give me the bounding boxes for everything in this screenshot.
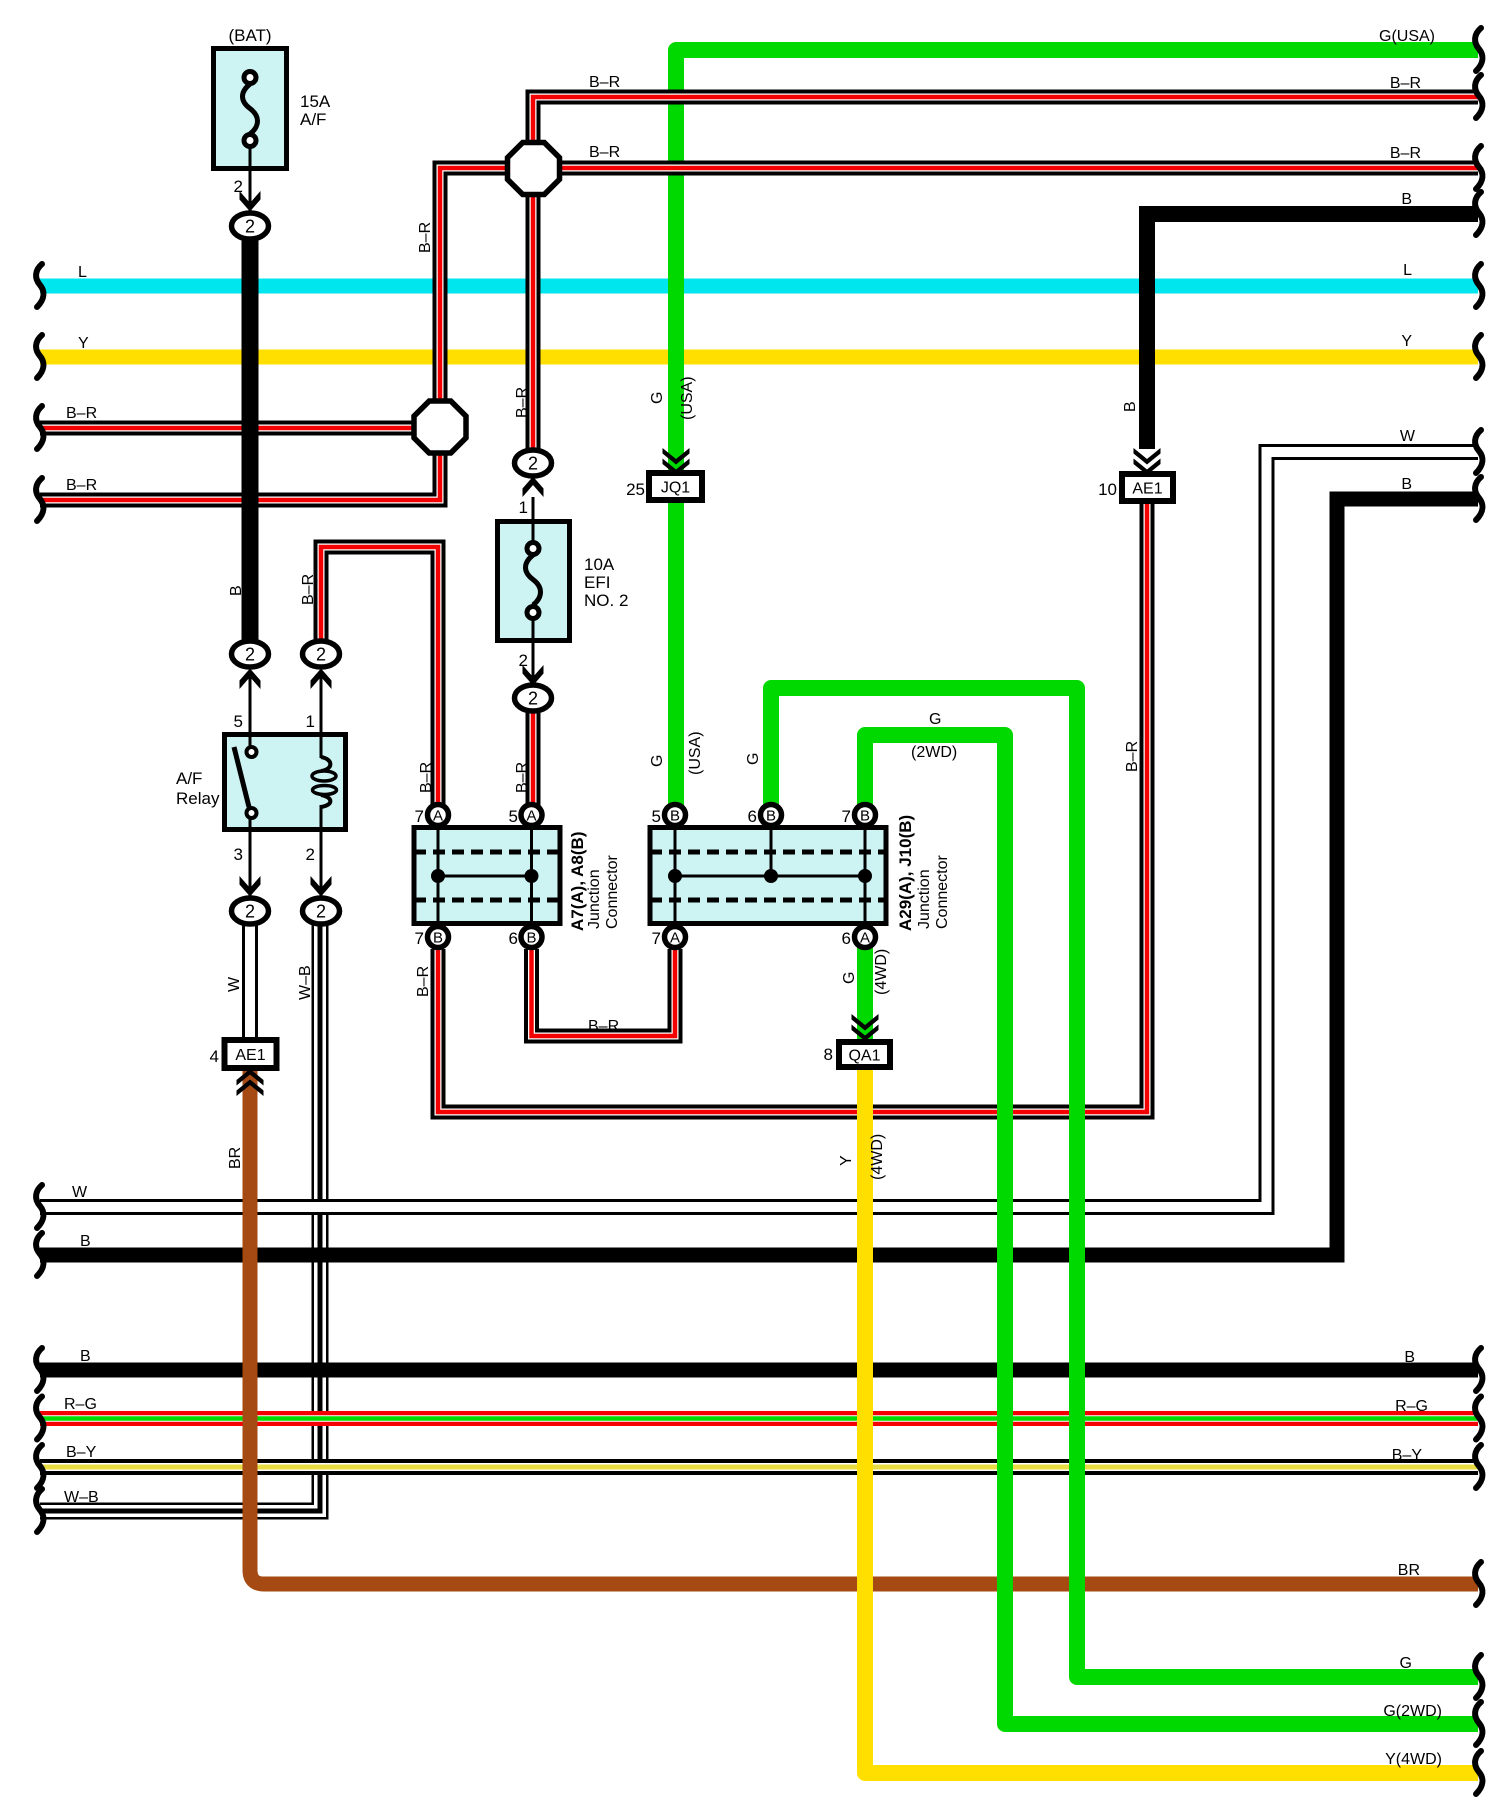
pin 5 A (A7 top right) xyxy=(509,805,542,827)
svg-text:25: 25 xyxy=(626,480,645,499)
svg-text:R–G: R–G xyxy=(1395,1398,1428,1415)
pin 7 A (A7 top left) xyxy=(415,805,449,827)
pin 7 B (A7 bottom left) xyxy=(415,927,449,949)
label B-R below AE1 10 xyxy=(1124,741,1141,772)
svg-text:AE1: AE1 xyxy=(235,1047,265,1064)
svg-text:A/F: A/F xyxy=(176,769,202,788)
wire B-R top first xyxy=(533,97,1478,145)
label R-G right xyxy=(1395,1398,1428,1415)
svg-text:B–R: B–R xyxy=(300,574,317,605)
wire B-R A7 pin 6B to A29 pin 7A xyxy=(532,949,676,1036)
connector ellipse 2 above relay pin 5 xyxy=(232,641,269,667)
connector ellipse 2 below relay pin 2 xyxy=(303,898,340,924)
svg-text:G: G xyxy=(929,711,941,728)
svg-text:Y(4WD): Y(4WD) xyxy=(1385,1751,1442,1768)
svg-text:W: W xyxy=(1400,428,1416,445)
label W-B relay pin 2 wire xyxy=(297,965,314,1000)
svg-text:B–R: B–R xyxy=(66,477,97,494)
label relay pin 3 xyxy=(234,845,243,864)
label L right xyxy=(1403,262,1412,279)
left edge wire-break marks xyxy=(36,264,43,1532)
label G below JQ1 xyxy=(649,755,666,767)
label BR brown wire xyxy=(227,1147,244,1169)
wire Y (left-right bus) xyxy=(40,350,1478,365)
label (USA) below JQ1 xyxy=(687,731,704,775)
svg-text:AE1: AE1 xyxy=(1132,481,1162,498)
label B right top xyxy=(1401,191,1412,208)
svg-text:G: G xyxy=(1400,1655,1412,1672)
label B-R vertical octagon link xyxy=(417,222,434,253)
wire link fuse EFI pin 1 xyxy=(532,497,535,523)
label A/F Relay xyxy=(176,769,220,808)
svg-text:B: B xyxy=(1404,1349,1415,1366)
svg-text:(USA): (USA) xyxy=(687,731,704,775)
svg-text:W: W xyxy=(226,976,243,992)
wire W right loop xyxy=(40,452,1478,1207)
arrow up to ellipse above fuse EFI xyxy=(523,477,544,498)
wire B-R left upper xyxy=(40,421,414,436)
label pin 1 fuse EFI xyxy=(519,498,528,517)
svg-text:8: 8 xyxy=(824,1045,833,1064)
svg-text:A7(A), A8(B): A7(A), A8(B) xyxy=(568,832,587,931)
connector AE1 pin 10 xyxy=(1098,474,1173,501)
svg-text:(4WD): (4WD) xyxy=(869,1134,886,1180)
label pin 2 fuse EFI xyxy=(519,651,528,670)
svg-text:A: A xyxy=(433,808,443,825)
svg-text:G: G xyxy=(649,392,666,404)
svg-text:15A: 15A xyxy=(300,92,331,111)
svg-text:2: 2 xyxy=(245,217,255,237)
label G loop 2WD xyxy=(929,711,941,728)
label B-R relay coil riser xyxy=(300,574,317,605)
svg-text:2: 2 xyxy=(234,177,243,196)
arrow double chevron into AE1 pin 4 xyxy=(237,1069,264,1096)
svg-text:(2WD): (2WD) xyxy=(911,744,957,761)
pin 6 A (A29 bottom right) xyxy=(842,927,876,949)
svg-text:Relay: Relay xyxy=(176,789,220,808)
relay A/F Relay box xyxy=(225,734,346,831)
label (4WD) below QA1 xyxy=(869,1134,886,1180)
svg-text:B: B xyxy=(1401,191,1412,208)
label B left mid xyxy=(80,1233,91,1250)
svg-text:Connector: Connector xyxy=(604,855,621,929)
svg-text:A: A xyxy=(526,808,536,825)
svg-text:7: 7 xyxy=(652,929,661,948)
fuse 10A EFI NO. 2 xyxy=(498,521,570,642)
wire link fuse EFI pin 2 xyxy=(532,640,535,684)
label B right second xyxy=(1401,476,1412,493)
svg-text:7: 7 xyxy=(842,807,851,826)
svg-text:4: 4 xyxy=(210,1047,219,1066)
wire Y(4WD) from QA1 to right edge xyxy=(865,1066,1478,1773)
svg-text:B: B xyxy=(526,930,536,947)
svg-text:(4WD): (4WD) xyxy=(873,949,890,995)
wire link relay pin 1 xyxy=(320,670,323,736)
svg-text:A29(A), J10(B): A29(A), J10(B) xyxy=(896,815,915,931)
svg-text:B–R: B–R xyxy=(66,405,97,422)
svg-text:2: 2 xyxy=(245,645,255,665)
wire G(USA) top xyxy=(676,50,1478,806)
connector QA1 xyxy=(824,1042,890,1067)
wire link fuse 15A to ellipse xyxy=(249,168,252,212)
svg-text:B: B xyxy=(766,808,776,825)
wire B top right xyxy=(1147,214,1478,449)
svg-text:5: 5 xyxy=(234,712,243,731)
svg-text:Y: Y xyxy=(838,1155,855,1166)
svg-text:Junction: Junction xyxy=(586,869,603,929)
connector AE1 pin 4 xyxy=(210,1040,277,1068)
connector ellipse 2 below fuse 15A xyxy=(232,213,269,239)
arrow into ellipse below fuse EFI xyxy=(523,665,544,686)
label 15A A/F xyxy=(300,92,331,129)
svg-text:B: B xyxy=(1401,476,1412,493)
wire link relay pin 5 xyxy=(249,670,252,736)
wire W from relay pin 3 to connector AE1 pin 4 xyxy=(242,920,258,1042)
arrow into ellipse relay pin 2 xyxy=(311,876,332,897)
label B-R below A7 pin 7B xyxy=(415,966,432,997)
wire B-R fuse EFI to A7 pin 5A xyxy=(526,711,541,806)
label B-R left upper xyxy=(66,405,97,422)
svg-text:G(2WD): G(2WD) xyxy=(1383,1703,1442,1720)
label B-Y left xyxy=(66,1444,97,1461)
wire G from A29 pin 6B to right edge xyxy=(771,688,1478,1677)
svg-text:BR: BR xyxy=(1398,1562,1420,1579)
wire B-Y bus xyxy=(40,1459,1478,1475)
label G above QA1 xyxy=(841,972,858,984)
label Y left xyxy=(78,335,89,352)
label (USA) above JQ1 xyxy=(679,376,696,420)
label BR right xyxy=(1398,1562,1420,1579)
arrow into ellipse below fuse 15A xyxy=(240,191,261,212)
svg-text:B: B xyxy=(670,808,680,825)
connector JQ1 xyxy=(626,473,702,500)
svg-text:G(USA): G(USA) xyxy=(1379,28,1435,45)
label B-Y right xyxy=(1392,1447,1423,1464)
svg-text:B–R: B–R xyxy=(1124,741,1141,772)
wire B from fuse 15A to relay pin 5 xyxy=(242,239,259,642)
label B-R vertical octagon1 down xyxy=(514,387,531,418)
svg-text:A/F: A/F xyxy=(300,110,326,129)
label B-R top segment 1 xyxy=(589,74,620,91)
svg-text:Y: Y xyxy=(78,335,89,352)
svg-text:A: A xyxy=(860,930,870,947)
arrow double chevron into JQ1 xyxy=(663,448,690,475)
svg-text:10: 10 xyxy=(1098,480,1117,499)
svg-text:A: A xyxy=(670,930,680,947)
arrow up to ellipse relay pin 5 xyxy=(240,669,261,690)
label (2WD) loop xyxy=(911,744,957,761)
label A29(A), J10(B) Junction Connector xyxy=(896,815,951,931)
svg-text:B–R: B–R xyxy=(1390,145,1421,162)
svg-text:B: B xyxy=(860,808,870,825)
label relay pin 2 xyxy=(306,845,315,864)
label Y below QA1 xyxy=(838,1155,855,1166)
svg-text:5: 5 xyxy=(509,807,518,826)
wire B-R from AE1 pin 10 to A7 pin 7B xyxy=(438,502,1147,1112)
wire link relay pin 2 xyxy=(320,829,323,897)
svg-text:7: 7 xyxy=(415,807,424,826)
label W right xyxy=(1400,428,1416,445)
svg-text:1: 1 xyxy=(306,712,315,731)
label R-G left xyxy=(64,1396,97,1413)
svg-text:3: 3 xyxy=(234,845,243,864)
svg-text:B: B xyxy=(80,1348,91,1365)
label W left xyxy=(72,1184,88,1201)
svg-text:W–B: W–B xyxy=(297,965,314,1000)
junction connector A7(A) A8(B) box xyxy=(414,828,560,924)
connector ellipse 2 below fuse EFI xyxy=(515,685,552,711)
svg-text:(USA): (USA) xyxy=(679,376,696,420)
label B fuse column xyxy=(228,585,245,596)
svg-text:B–R: B–R xyxy=(1390,75,1421,92)
svg-text:B–R: B–R xyxy=(415,966,432,997)
svg-text:2: 2 xyxy=(528,689,538,709)
label (BAT) xyxy=(228,26,271,45)
label W relay pin 3 wire xyxy=(226,976,243,992)
label B-R top segment 2 xyxy=(589,144,620,161)
wire B-R octagon1 down to fuse EFI xyxy=(526,192,541,451)
svg-text:G: G xyxy=(649,755,666,767)
svg-text:2: 2 xyxy=(245,902,255,922)
wire G(4WD) from A29 pin 6A to QA1 xyxy=(857,947,873,1042)
right edge wire-break marks xyxy=(1475,28,1482,1794)
label relay pin 1 xyxy=(306,712,315,731)
label Y(4WD) right xyxy=(1385,1751,1442,1768)
pin 7 B (A29 top right) xyxy=(842,805,876,827)
wire G(2WD) from A29 pin 7B to right edge xyxy=(865,735,1478,1724)
svg-text:B–R: B–R xyxy=(589,74,620,91)
svg-text:Y: Y xyxy=(1401,333,1412,350)
svg-text:Connector: Connector xyxy=(934,855,951,929)
svg-text:1: 1 xyxy=(519,498,528,517)
pin 7 A (A29 bottom left) xyxy=(652,927,686,949)
svg-text:6: 6 xyxy=(509,929,518,948)
label A7(A), A8(B) Junction Connector xyxy=(568,832,621,931)
label B right lower xyxy=(1404,1349,1415,1366)
node octagon junction upper xyxy=(508,143,560,195)
svg-text:(BAT): (BAT) xyxy=(228,26,271,45)
junction connector A29(A) J10(B) box xyxy=(650,828,886,924)
svg-text:B–R: B–R xyxy=(588,1018,619,1035)
svg-text:6: 6 xyxy=(748,807,757,826)
svg-text:B–R: B–R xyxy=(417,222,434,253)
svg-text:L: L xyxy=(1403,262,1412,279)
pin 6 B (A7 bottom right) xyxy=(509,927,542,949)
svg-text:B–R: B–R xyxy=(514,387,531,418)
connector ellipse 2 above fuse EFI xyxy=(515,450,552,476)
fuse 15A A/F xyxy=(214,49,287,171)
svg-text:2: 2 xyxy=(528,454,538,474)
label G riser A29 6B xyxy=(745,753,762,765)
svg-text:B–R: B–R xyxy=(514,762,531,793)
pin 6 B (A29 top middle) xyxy=(748,805,782,827)
svg-text:B–R: B–R xyxy=(589,144,620,161)
svg-text:B: B xyxy=(1122,401,1139,412)
wire L (left-right bus) xyxy=(40,279,1478,294)
svg-text:B: B xyxy=(80,1233,91,1250)
label (4WD) above QA1 xyxy=(873,949,890,995)
label B above AE1 10 xyxy=(1122,401,1139,412)
svg-text:7: 7 xyxy=(415,929,424,948)
svg-text:B–Y: B–Y xyxy=(66,1444,97,1461)
label G right xyxy=(1400,1655,1412,1672)
wire W-B from relay pin 2 to left edge xyxy=(40,920,320,1511)
wire R-G bus xyxy=(40,1411,1478,1426)
label W-B left xyxy=(64,1489,99,1506)
svg-text:B: B xyxy=(228,585,245,596)
wire B-R octagon1 to octagon2 xyxy=(440,168,509,404)
arrow double chevron into QA1 xyxy=(852,1014,879,1041)
arrow into ellipse relay pin 3 xyxy=(240,876,261,897)
svg-text:W: W xyxy=(72,1184,88,1201)
wire B-R top second xyxy=(557,161,1478,176)
svg-text:G: G xyxy=(745,753,762,765)
svg-text:W–B: W–B xyxy=(64,1489,99,1506)
svg-text:2: 2 xyxy=(316,902,326,922)
wire B-R left lower to junction octagon xyxy=(40,450,440,500)
label B-R to A7 pin 5A xyxy=(514,762,531,793)
label 10A EFI NO. 2 xyxy=(584,555,628,610)
label B-R right second xyxy=(1390,145,1421,162)
arrow double chevron into AE1 pin 10 xyxy=(1134,448,1161,475)
label B-R right first xyxy=(1390,75,1421,92)
label G above JQ1 xyxy=(649,392,666,404)
svg-text:BR: BR xyxy=(227,1147,244,1169)
label G(USA) right xyxy=(1379,28,1435,45)
label B-R to A7 pin 7A xyxy=(418,762,435,793)
arrow up to ellipse relay pin 1 xyxy=(311,669,332,690)
svg-text:EFI: EFI xyxy=(584,573,610,592)
svg-text:JQ1: JQ1 xyxy=(661,480,690,497)
connector ellipse 2 below relay pin 3 xyxy=(232,898,269,924)
pin 5 B (A29 top left) xyxy=(652,805,686,827)
wire link relay pin 3 xyxy=(249,829,252,897)
label Y right xyxy=(1401,333,1412,350)
svg-text:B–Y: B–Y xyxy=(1392,1447,1423,1464)
svg-text:B: B xyxy=(433,930,443,947)
svg-text:R–G: R–G xyxy=(64,1396,97,1413)
svg-text:2: 2 xyxy=(316,645,326,665)
svg-text:10A: 10A xyxy=(584,555,615,574)
wire B-R from relay pin 1 to A7 pin 7A xyxy=(321,547,438,806)
svg-text:6: 6 xyxy=(842,929,851,948)
label B-R left lower xyxy=(66,477,97,494)
svg-text:2: 2 xyxy=(306,845,315,864)
wire B right loop xyxy=(40,499,1478,1255)
svg-text:NO. 2: NO. 2 xyxy=(584,591,628,610)
wire B lower bus xyxy=(40,1363,1478,1378)
connector ellipse 2 above relay pin 1 xyxy=(303,641,340,667)
label B-R lower U segment xyxy=(588,1018,619,1035)
label G(2WD) right xyxy=(1383,1703,1442,1720)
label B left lower xyxy=(80,1348,91,1365)
svg-text:L: L xyxy=(78,264,87,281)
wire BR brown from AE1 pin 4 to right edge xyxy=(250,1070,1478,1584)
svg-text:Junction: Junction xyxy=(916,869,933,929)
svg-text:QA1: QA1 xyxy=(848,1048,880,1065)
node octagon junction lower xyxy=(414,401,466,453)
label relay pin 5 xyxy=(234,712,243,731)
svg-text:B–R: B–R xyxy=(418,762,435,793)
label pin 2 fuse 15A xyxy=(234,177,243,196)
svg-text:G: G xyxy=(841,972,858,984)
svg-text:5: 5 xyxy=(652,807,661,826)
label L left xyxy=(78,264,87,281)
